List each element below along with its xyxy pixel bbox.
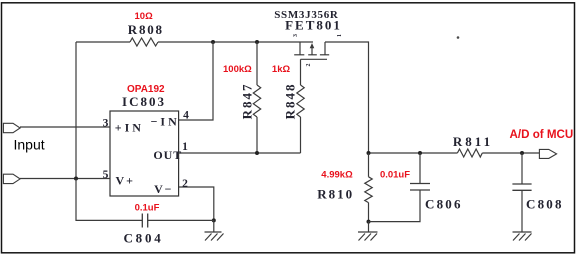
svg-text:R811: R811 xyxy=(453,134,493,149)
wire C806 top xyxy=(419,153,421,184)
wire right rail xyxy=(369,152,458,154)
svg-text:R810: R810 xyxy=(317,187,354,202)
svg-text:3: 3 xyxy=(103,117,109,129)
wire input 1 to +IN xyxy=(20,126,110,128)
svg-text:4.99kΩ: 4.99kΩ xyxy=(321,170,353,181)
wire feedback vertical to -IN xyxy=(179,42,213,120)
svg-text:5: 5 xyxy=(103,169,109,181)
resistor R848 xyxy=(297,85,304,117)
wire rail to output xyxy=(482,152,539,154)
svg-text:R808: R808 xyxy=(128,22,164,37)
wire gate to R848 xyxy=(300,59,302,85)
wire C804 left leg xyxy=(76,179,142,221)
transistor FET801 xyxy=(294,42,329,59)
svg-text:2: 2 xyxy=(306,64,312,67)
node V+ junction xyxy=(74,177,78,181)
svg-text:R847: R847 xyxy=(240,82,255,119)
node drain/R810 junction xyxy=(367,151,371,155)
op-amp U1 IC803 box xyxy=(110,111,179,196)
ground under V- xyxy=(205,220,224,240)
svg-text:100kΩ: 100kΩ xyxy=(223,64,252,75)
ground under R810 xyxy=(358,222,378,241)
node C804/V- junction xyxy=(212,218,216,222)
wire R810 top xyxy=(368,153,370,177)
wire top-left vertical (input branch to V+) xyxy=(75,42,77,179)
wire R847 branch top xyxy=(256,42,258,85)
svg-text:2: 2 xyxy=(182,178,188,190)
resistor R810 xyxy=(365,177,372,203)
svg-text:A/D of MCU: A/D of MCU xyxy=(510,128,574,141)
svg-text:1kΩ: 1kΩ xyxy=(272,64,291,75)
svg-text:1: 1 xyxy=(182,141,188,153)
svg-text:IC803: IC803 xyxy=(122,94,166,109)
svg-text:C808: C808 xyxy=(526,197,564,212)
wire C806 bottom xyxy=(369,190,421,222)
wire OUT rail left xyxy=(179,152,301,154)
svg-text:3: 3 xyxy=(293,34,299,37)
svg-text:1: 1 xyxy=(337,34,343,37)
node C806 junction xyxy=(418,151,422,155)
svg-text:4: 4 xyxy=(183,109,189,121)
wire top rail middle xyxy=(158,41,313,43)
node R810/C806 bottom junction xyxy=(367,220,371,224)
svg-text:0.01uF: 0.01uF xyxy=(380,170,410,181)
svg-text:C806: C806 xyxy=(425,197,463,212)
svg-text:−IN: −IN xyxy=(151,115,180,129)
ground under C808 xyxy=(513,232,532,241)
svg-text:C804: C804 xyxy=(123,231,163,246)
node R847 top junction xyxy=(255,40,259,44)
resistor R847 xyxy=(253,85,260,117)
svg-text:0.1uF: 0.1uF xyxy=(135,203,160,214)
wire input 2 to V+ xyxy=(20,178,110,180)
wire top rail left xyxy=(76,41,130,43)
svg-text:FET801: FET801 xyxy=(285,18,342,33)
wire R848 bottom xyxy=(300,117,302,153)
capacitor C804 xyxy=(142,214,147,228)
wire top rail right of FET xyxy=(325,42,369,153)
connector output A/D xyxy=(539,149,556,158)
wire C804 right leg xyxy=(148,219,214,221)
resistor R811 xyxy=(457,149,482,157)
node C808 junction xyxy=(520,151,524,155)
capacitor C808 xyxy=(512,184,531,190)
wire R810 bottom xyxy=(368,203,370,222)
node stray speck xyxy=(457,36,460,39)
svg-text:+IN: +IN xyxy=(115,121,144,135)
svg-text:V−: V− xyxy=(154,182,173,196)
svg-text:10Ω: 10Ω xyxy=(135,11,154,22)
svg-text:V+: V+ xyxy=(116,173,135,187)
wire R847 bottom xyxy=(256,117,258,153)
node feedback junction xyxy=(211,40,215,44)
wire C808 bottom xyxy=(521,190,523,232)
resistor R808 xyxy=(130,38,158,46)
wire C808 top xyxy=(521,153,523,184)
connector input 2 xyxy=(3,174,20,183)
capacitor C806 xyxy=(410,184,430,191)
node OUT/R847 junction xyxy=(255,151,259,155)
svg-text:Input: Input xyxy=(14,137,45,153)
svg-text:OUT: OUT xyxy=(153,148,182,162)
wire V- to ground xyxy=(179,187,214,220)
connector input 1 xyxy=(3,123,20,132)
svg-text:R848: R848 xyxy=(282,82,297,119)
